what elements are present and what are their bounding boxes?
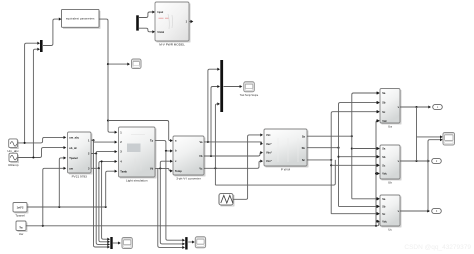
wire Tw long bottom trunk to E3 in4 bbox=[26, 221, 379, 226]
wire up to C in3 bbox=[160, 161, 171, 168]
wire jog bbox=[261, 142, 263, 144]
wire trunk down to mux2 in2 bbox=[160, 168, 183, 244]
junction Tpanel/A in3 trunk bbox=[58, 206, 60, 208]
scope S4 (right, 2 inputs) bbox=[443, 133, 455, 146]
wire mux2 to scope5 bbox=[188, 241, 193, 243]
svg-text:Sb: Sb bbox=[302, 146, 306, 150]
wire tall mux to scope S2 bbox=[224, 86, 242, 88]
svg-text:Light simulation: Light simulation bbox=[126, 178, 148, 182]
svg-text:Ub: Ub bbox=[388, 180, 392, 184]
mux (top-left, 2 inputs) bbox=[40, 40, 43, 52]
junction trunk1 bbox=[351, 135, 353, 137]
junction on trunk to scope1 bbox=[107, 63, 109, 65]
wire to E2 in4 bbox=[376, 173, 379, 175]
mux bottom-left (4 inputs) bbox=[110, 237, 112, 249]
constant: Tw value bbox=[16, 221, 27, 236]
svg-text:URamp: URamp bbox=[8, 163, 19, 167]
trunk2 to E2 in2 bbox=[339, 156, 379, 158]
junction E3 out bbox=[427, 210, 429, 212]
wire up to A in4 bbox=[43, 168, 65, 226]
svg-text:Temp: Temp bbox=[175, 169, 182, 173]
svg-text:Sb: Sb bbox=[382, 155, 386, 159]
wire trunk up to tall mux in2 bbox=[211, 87, 219, 157]
subsystem E3: phase-c voltage bbox=[380, 195, 401, 231]
junction trunk2 bbox=[337, 147, 339, 149]
wire long low horizontal to mesh bbox=[215, 160, 335, 185]
source: signal URamp bbox=[8, 153, 19, 167]
svg-text:Sb: Sb bbox=[382, 205, 386, 209]
svg-text:Tp: Tp bbox=[150, 139, 154, 143]
wire sawtooth to D in1 bbox=[233, 135, 262, 199]
wire sine1 to A in1 bbox=[18, 137, 65, 143]
wire A out1 to B in2 bbox=[91, 140, 116, 142]
junction A out2 bbox=[95, 152, 97, 154]
scope S5 (bottom middle) bbox=[195, 237, 205, 248]
subsystem B: boost converter model bbox=[119, 127, 156, 182]
svg-text:Tamb: Tamb bbox=[120, 169, 127, 173]
wire D out3 to trunk3 bbox=[307, 159, 331, 161]
wire Tpanel row bbox=[27, 206, 106, 208]
wire E3 up to scope S4 in2 bbox=[428, 140, 442, 211]
svg-text:Utotal: Utotal bbox=[158, 31, 165, 34]
svg-text:Vd: Vd bbox=[150, 167, 154, 171]
junction Tpanel/B in5 trunk bbox=[105, 206, 107, 208]
wire mux2out to equivalent block bbox=[43, 19, 59, 45]
subsystem D: PWM generator bbox=[264, 129, 308, 171]
wire sine1 trunk up to mux in1 bbox=[25, 43, 38, 143]
output port oval 3 bbox=[432, 208, 442, 213]
junction bbox=[101, 160, 103, 162]
junction sine1/mux trunk bbox=[24, 142, 26, 144]
arrow into IV block in2 bbox=[152, 30, 155, 33]
wire trunk up to tall mux in1 bbox=[208, 69, 219, 142]
wire trunk up to tall mux in3 bbox=[215, 104, 218, 168]
wire up to B in5 bbox=[106, 171, 116, 207]
wire sine2 to A in2 bbox=[18, 148, 65, 158]
svg-text:Vtri: Vtri bbox=[266, 133, 271, 137]
junction C out3 / tall mux trunk3 bbox=[214, 167, 216, 169]
svg-text:equivalent parameters: equivalent parameters bbox=[66, 16, 95, 20]
arrow into IV block in1 bbox=[152, 10, 155, 13]
junction A out1 bbox=[92, 139, 94, 141]
wire trunk down to mux2 in3 bbox=[158, 168, 184, 247]
svg-text:Vdc: Vdc bbox=[382, 219, 387, 223]
trunk1 to E3 in1 bbox=[352, 198, 379, 200]
mux bottom-middle (3 inputs) bbox=[185, 237, 187, 249]
svg-text:M-V PWR MODEL: M-V PWR MODEL bbox=[159, 42, 185, 46]
trunk3 vertical to E1 in3 bbox=[331, 112, 378, 214]
wire E2 out to oval2 bbox=[400, 160, 429, 162]
trunk3 to E2 in3 bbox=[331, 164, 378, 166]
junction trunk2 E2 bbox=[337, 156, 339, 158]
wire E1 out to oval1 bbox=[400, 106, 430, 108]
wire up to A in3 bbox=[59, 158, 65, 207]
svg-text:CSDN @qq_43279379: CSDN @qq_43279379 bbox=[404, 244, 471, 251]
wire D out1 to trunk1 bbox=[307, 135, 352, 137]
subsystem A: PV array model bbox=[68, 132, 92, 178]
svg-text:Vbs*: Vbs* bbox=[266, 151, 272, 155]
wire trunk down to mux2 in1 bbox=[166, 151, 184, 240]
junction trunk3 E2 bbox=[330, 164, 332, 166]
svg-text:1e6*2: 1e6*2 bbox=[17, 206, 24, 210]
svg-text:ub_dc: ub_dc bbox=[69, 146, 77, 150]
input arrow into equivalent block bbox=[59, 18, 62, 21]
junction C out1 / tall mux trunk1 bbox=[207, 141, 209, 143]
subsystem E2: phase-b voltage bbox=[380, 145, 401, 184]
wire equivalent block output trunk down to PV block in1 bbox=[99, 19, 116, 132]
source: triangle carrier wave bbox=[219, 194, 234, 206]
junction Tw row / A in4 trunk bbox=[42, 225, 44, 227]
svg-text:Sc: Sc bbox=[302, 158, 306, 162]
scope S1 (top middle) bbox=[132, 59, 142, 69]
demux (feeds IV block) bbox=[136, 15, 139, 30]
svg-text:Tpanel: Tpanel bbox=[15, 213, 25, 217]
junction trunk3 bbox=[330, 159, 332, 161]
wire trunk up to E1 in4 bbox=[376, 121, 379, 226]
svg-text:Vcs*: Vcs* bbox=[266, 159, 272, 163]
subsystem: equivalent parameters block bbox=[62, 9, 100, 28]
wire demux to IV in1 bbox=[139, 12, 153, 18]
svg-text:Vdc: Vdc bbox=[382, 119, 387, 123]
svg-text:Tout Temp Scope: Tout Temp Scope bbox=[240, 94, 259, 97]
junction C out2 / tall mux trunk2 bbox=[210, 155, 212, 157]
output stub of IV block bbox=[189, 21, 191, 23]
wire vertical E1-E2 bus bbox=[416, 107, 418, 161]
svg-text:Ua: Ua bbox=[388, 124, 392, 128]
trunk3 to E3 in3 bbox=[331, 213, 378, 215]
junction on trunk, branch right bbox=[107, 119, 109, 121]
wire B out1 down to C in2 bbox=[155, 141, 172, 151]
trunk1 vertical to E1 in1 bbox=[352, 93, 379, 199]
junction E2 out bbox=[415, 160, 417, 162]
wire trunk A out3 down to mux1 bbox=[99, 168, 109, 242]
wire to scope S4 in1 bbox=[417, 136, 442, 138]
svg-text:PV21 9783: PV21 9783 bbox=[72, 174, 88, 178]
trunk2 to E3 in2 bbox=[339, 205, 379, 207]
source: irradiance signal Um bbox=[7, 139, 19, 153]
output port oval 2 bbox=[432, 158, 442, 163]
subsystem C: inverter control bbox=[173, 136, 205, 180]
wire demux to IV in2 bbox=[139, 28, 153, 32]
wire branch down to C in1 bbox=[108, 121, 172, 141]
junction sine2/mux trunk bbox=[32, 156, 34, 158]
wire mux1 to scope3 bbox=[113, 242, 120, 244]
subsystem: I-V curve display block bbox=[155, 2, 190, 46]
output port oval 1 bbox=[433, 104, 443, 109]
wire sine2 trunk up to mux in2 bbox=[33, 49, 37, 157]
wire E3 out to oval3 bbox=[400, 210, 429, 212]
svg-text:Sa: Sa bbox=[302, 134, 306, 138]
subsystem E1: phase-a voltage bbox=[380, 89, 401, 129]
tall mux (3 inputs, feeds temp scope) bbox=[220, 60, 223, 112]
wire C out1 to D in2 bbox=[204, 141, 262, 143]
wire D out2 to trunk2 bbox=[307, 147, 339, 149]
svg-text:um_abc: um_abc bbox=[69, 136, 79, 140]
constant: Tpanel value bbox=[13, 203, 28, 218]
svg-text:Uc: Uc bbox=[388, 227, 392, 231]
svg-text:Vas*: Vas* bbox=[266, 142, 271, 146]
wire A out2 to B in3 bbox=[91, 152, 116, 154]
junction B out1 / mux2 trunk bbox=[165, 150, 167, 152]
wire trunk A out2 down to mux1 bbox=[96, 154, 108, 245]
trunk1 to E2 in1 bbox=[352, 148, 379, 150]
wire trunk B in4 row down to mux1 bbox=[102, 161, 109, 239]
wire A out3 to B in4 bbox=[91, 161, 116, 168]
junction B out2 / C in3 branch bbox=[159, 167, 161, 169]
svg-text:Vdc: Vdc bbox=[382, 172, 387, 176]
trunk2 vertical to E1 in2 bbox=[339, 103, 379, 207]
svg-text:Um_abc: Um_abc bbox=[7, 149, 19, 153]
svg-text:Vb: Vb bbox=[199, 154, 203, 158]
wire B out2 to C in4 bbox=[155, 168, 172, 171]
svg-text:Tpanel: Tpanel bbox=[69, 156, 78, 160]
svg-text:Sb: Sb bbox=[382, 101, 386, 105]
wire stub down bbox=[214, 168, 216, 185]
wire trunk A out1 down to mux1 bbox=[94, 140, 109, 247]
svg-text:Uw: Uw bbox=[19, 232, 24, 236]
scope S3 (bottom left) bbox=[122, 238, 132, 249]
svg-text:3-ph V-I converter: 3-ph V-I converter bbox=[176, 176, 201, 180]
wire C out3 to D in4 bbox=[204, 161, 262, 168]
wire to scope1 bbox=[108, 63, 129, 65]
svg-text:Input: Input bbox=[158, 11, 164, 14]
svg-text:Vc: Vc bbox=[199, 166, 203, 170]
junction trunk1 E2 bbox=[351, 147, 353, 149]
junction E1 out bbox=[415, 106, 417, 108]
junction Tw row / E in4 trunk bbox=[375, 225, 377, 227]
wire C out2 to D in3 bbox=[204, 153, 262, 156]
junction E2 in4 bbox=[375, 172, 377, 174]
scope S2 (Tout Temp Scope) bbox=[244, 82, 255, 92]
svg-text:P W M: P W M bbox=[281, 167, 291, 171]
junction A out3 bbox=[98, 167, 100, 169]
